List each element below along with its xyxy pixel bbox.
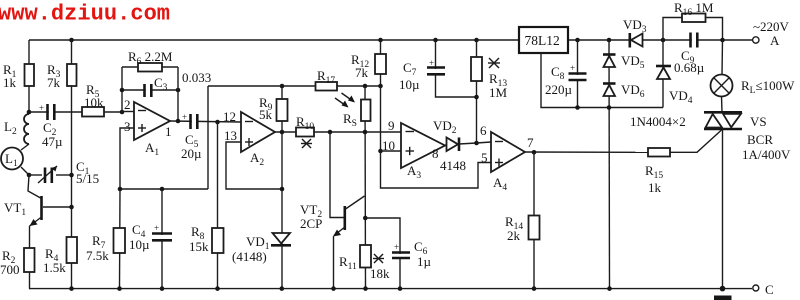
wire R17 line xyxy=(208,85,381,87)
wire A3 output to VD2 xyxy=(445,145,447,146)
resistor R7 xyxy=(114,228,126,253)
node R12 top rail xyxy=(378,38,383,43)
svg-text:~220V: ~220V xyxy=(753,19,790,34)
svg-text:15k: 15k xyxy=(189,239,209,254)
svg-text:1: 1 xyxy=(165,124,172,139)
node bias/R7/A1 pin3 xyxy=(118,187,123,192)
diode VD1 xyxy=(271,233,291,245)
wire top rail xyxy=(29,39,519,41)
svg-text:10: 10 xyxy=(382,138,395,153)
svg-text:2: 2 xyxy=(124,97,131,112)
node VT2 emitter ground xyxy=(331,286,336,291)
svg-text:VD5: VD5 xyxy=(621,53,645,71)
wire R9/VD1 column xyxy=(281,86,283,289)
node C5 / R8 column / A2 pin12 xyxy=(215,120,220,125)
svg-text:10k: 10k xyxy=(84,95,104,110)
inductor L1 xyxy=(1,148,23,170)
wire A3 pin10 lead xyxy=(381,150,402,152)
wire C3 branch xyxy=(122,89,178,91)
node RS bottom / pin9 wire xyxy=(363,130,368,135)
wire R8 column xyxy=(217,122,219,289)
node R7 ground xyxy=(117,286,122,291)
resistor R9 xyxy=(277,99,288,121)
svg-text:RL≤100W: RL≤100W xyxy=(741,78,795,96)
resistor R8 xyxy=(212,228,224,253)
op-amp A1 xyxy=(134,102,170,140)
svg-text:20µ: 20µ xyxy=(181,146,202,161)
node C9 right / lamp xyxy=(720,38,725,43)
wire VD5/VD6 column xyxy=(608,40,611,289)
node C8 top rail xyxy=(575,38,580,43)
node C8 / ground wire xyxy=(575,105,580,110)
wire C7 column xyxy=(436,40,477,97)
wire A1 pin2 lead xyxy=(122,111,134,113)
svg-text:+: + xyxy=(570,63,575,73)
svg-text:VT1: VT1 xyxy=(4,200,26,218)
diode VD2 xyxy=(447,138,460,152)
capacitor C8 xyxy=(569,63,587,80)
wire VD4 branch xyxy=(662,40,664,108)
wire R12 column xyxy=(380,40,382,151)
capacitor C6 xyxy=(392,242,410,258)
svg-text:13: 13 xyxy=(224,128,237,143)
svg-text:C8: C8 xyxy=(551,64,565,82)
node RS top xyxy=(363,84,368,89)
svg-text:7: 7 xyxy=(527,135,534,150)
node top rail / R3 xyxy=(69,38,74,43)
node C4 ground xyxy=(160,286,165,291)
mark ref R10 xyxy=(301,139,312,148)
capacitor C9 xyxy=(691,33,698,48)
resistor R12 xyxy=(375,54,386,74)
diode VD4 xyxy=(656,66,671,79)
photoresistor RS xyxy=(361,100,371,122)
mark ref R11 xyxy=(373,254,384,263)
wire A1 pin3 lead xyxy=(120,128,134,189)
wire R14 column xyxy=(533,152,535,288)
svg-text:1A/400V: 1A/400V xyxy=(742,147,791,162)
diode VD6 xyxy=(603,84,616,97)
wire 0.033 column xyxy=(207,86,209,189)
svg-text:18k: 18k xyxy=(370,266,390,281)
svg-text:8: 8 xyxy=(432,146,439,161)
wire A1 output xyxy=(170,121,241,122)
svg-text:+: + xyxy=(394,242,399,252)
wire bottom rail xyxy=(29,288,752,290)
svg-text:L2: L2 xyxy=(4,119,17,137)
svg-text:700: 700 xyxy=(0,262,20,277)
resistor R17 xyxy=(316,82,338,91)
svg-text:A4: A4 xyxy=(493,175,507,193)
svg-text:9: 9 xyxy=(388,118,395,133)
wire top rail right of 78L12 xyxy=(568,39,752,41)
wire L1 to node xyxy=(21,167,29,175)
op-amp A4 xyxy=(491,132,525,172)
op-amp A2 xyxy=(241,112,275,152)
wire R13 column xyxy=(476,40,478,143)
wire A4 output xyxy=(525,151,648,153)
capacitor C1 (variable 5/15) xyxy=(29,166,72,183)
svg-text:VD3: VD3 xyxy=(623,17,647,35)
svg-text:C: C xyxy=(765,282,774,297)
svg-text:1.5k: 1.5k xyxy=(43,260,66,275)
capacitor C7 xyxy=(427,58,445,74)
wire C2/R5 input wire xyxy=(29,111,122,113)
terminal A xyxy=(753,37,759,43)
wire A2 pin13 lead xyxy=(226,142,282,189)
svg-text:1k: 1k xyxy=(3,75,17,90)
node R14 ground xyxy=(532,286,537,291)
node bias/C4 xyxy=(160,187,165,192)
ground symbol xyxy=(714,296,732,300)
svg-text:C7: C7 xyxy=(403,60,417,78)
node R8 ground xyxy=(215,286,220,291)
resistor R16 xyxy=(682,14,706,23)
node VT1 base / R4 xyxy=(69,205,74,210)
node triac ground xyxy=(720,286,726,292)
svg-text:1M: 1M xyxy=(489,85,508,100)
mark ref R13 xyxy=(488,58,500,68)
diode VD5 xyxy=(603,55,616,68)
svg-text:+: + xyxy=(182,112,187,122)
node R12 bottom / R17 line xyxy=(378,84,383,89)
node R1/C2/L2 xyxy=(27,110,32,115)
wire A4 pin5 link to pin10 xyxy=(381,151,492,188)
svg-text:R15: R15 xyxy=(645,163,663,181)
diode VD3 xyxy=(630,33,643,48)
wire R7 column xyxy=(119,189,122,289)
svg-text:7.5k: 7.5k xyxy=(86,248,109,263)
wire A1 feedback left vertical xyxy=(121,67,123,112)
svg-text:5/15: 5/15 xyxy=(76,171,99,186)
svg-text:3: 3 xyxy=(124,119,131,134)
resistor R1 xyxy=(25,64,35,86)
wire VD2 to A4 pin6 xyxy=(459,142,491,144)
node C7 top rail xyxy=(433,38,438,43)
wire C6 branch xyxy=(365,218,400,289)
svg-text:RS: RS xyxy=(343,111,357,129)
IC 78L12 xyxy=(519,27,568,53)
svg-text:0.033: 0.033 xyxy=(182,70,211,85)
node R10 right / VT2 base column xyxy=(328,130,333,135)
wire R4 column xyxy=(71,207,73,289)
transistor VT1 xyxy=(28,175,72,248)
svg-text:5k: 5k xyxy=(259,107,273,122)
svg-text:+: + xyxy=(429,58,434,68)
node C3 left xyxy=(120,88,125,93)
wire A2 output xyxy=(275,131,401,133)
svg-text:1µ: 1µ xyxy=(417,254,432,269)
wire 78L12 ground pin xyxy=(541,53,663,108)
node L1/C1/VT1 xyxy=(27,173,32,178)
svg-text:VD2: VD2 xyxy=(433,118,457,136)
wire R3 column xyxy=(71,40,73,207)
svg-text:A: A xyxy=(770,33,780,48)
svg-text:7k: 7k xyxy=(47,75,61,90)
resistor R14 xyxy=(529,216,540,240)
svg-text:220µ: 220µ xyxy=(545,82,573,97)
svg-text:2CP: 2CP xyxy=(300,216,322,231)
node A3 pin10 / A4 pin5 link xyxy=(378,149,383,154)
node pin13/VD1 xyxy=(280,187,285,192)
terminal C xyxy=(753,285,759,291)
svg-text:VD6: VD6 xyxy=(621,82,645,100)
resistor R4 xyxy=(67,237,78,263)
wire left rail with R1 xyxy=(28,40,30,114)
svg-text:BCR: BCR xyxy=(747,132,773,147)
svg-text:A3: A3 xyxy=(407,163,421,181)
resistor R5 xyxy=(82,107,104,117)
wire R15 to triac gate xyxy=(670,130,722,152)
node R13 / C7 xyxy=(474,95,479,100)
capacitor C5 xyxy=(182,112,197,129)
svg-text:+: + xyxy=(39,103,44,113)
node VD6 / ground wire xyxy=(607,105,612,110)
wire A1 feedback top (R6) xyxy=(122,66,178,68)
resistor R11 xyxy=(360,245,371,268)
svg-text:4148: 4148 xyxy=(440,158,466,173)
resistor R2 xyxy=(24,248,35,272)
svg-text:78L12: 78L12 xyxy=(525,33,560,48)
node A1 output feedback xyxy=(176,119,181,124)
svg-text:10µ: 10µ xyxy=(129,237,150,252)
svg-text:47µ: 47µ xyxy=(42,134,63,149)
capacitor C2 xyxy=(39,103,54,120)
node R13 top rail xyxy=(474,38,479,43)
svg-text:+: + xyxy=(154,223,159,233)
resistor R3 xyxy=(67,64,77,86)
svg-text:10µ: 10µ xyxy=(399,77,420,92)
svg-text:VD4: VD4 xyxy=(669,88,693,106)
node VD3/VD4/R16 xyxy=(661,38,666,43)
node C3 right xyxy=(176,88,181,93)
svg-text:A2: A2 xyxy=(250,150,264,168)
light arrows at RS xyxy=(335,93,355,108)
capacitor C4 xyxy=(152,223,172,240)
svg-text:1N4004×2: 1N4004×2 xyxy=(630,114,686,129)
wire bias line y=189 xyxy=(120,188,208,190)
resistor R10 xyxy=(296,128,314,137)
wire VT2 base column xyxy=(330,132,344,218)
node R5/A1 pin2/feedback xyxy=(120,110,125,115)
wire R2 to ground rail xyxy=(28,272,31,289)
node C1 right / R3 column xyxy=(69,173,74,178)
svg-text:A1: A1 xyxy=(145,140,159,158)
svg-text:2k: 2k xyxy=(507,228,521,243)
node R9 top xyxy=(280,84,285,89)
svg-text:(4148): (4148) xyxy=(232,249,267,264)
node C6 ground xyxy=(398,286,403,291)
svg-text:R11: R11 xyxy=(339,254,357,272)
svg-text:www.dziuu.com: www.dziuu.com xyxy=(0,2,170,27)
node VD5 column top rail xyxy=(607,38,612,43)
inductor L2 xyxy=(24,114,29,144)
node VT2 collector / R11 top xyxy=(363,216,368,221)
svg-text:7k: 7k xyxy=(355,65,369,80)
node VD5 column ground xyxy=(607,286,612,291)
op-amp A3 xyxy=(401,123,445,168)
svg-text:6: 6 xyxy=(480,123,487,138)
transistor VT2 xyxy=(333,196,365,289)
svg-text:12: 12 xyxy=(223,109,236,124)
wire A1 feedback right vertical xyxy=(177,67,179,121)
wire L2 to L1 xyxy=(21,144,29,150)
lamp RL xyxy=(711,40,733,97)
wire C4 column xyxy=(161,189,163,289)
wire R16 loop xyxy=(663,18,723,41)
svg-text:VS: VS xyxy=(750,114,767,129)
wire C8 column xyxy=(577,40,579,108)
node R11 ground xyxy=(363,286,368,291)
resistor R15 xyxy=(648,148,670,157)
node R4 ground xyxy=(69,286,74,291)
resistor R6 xyxy=(138,63,162,72)
node A4 out / R14 xyxy=(532,150,537,155)
triac VS xyxy=(704,97,742,289)
capacitor C3 xyxy=(145,84,152,97)
svg-text:1k: 1k xyxy=(648,180,662,195)
node VD1 ground xyxy=(280,286,285,291)
node VD2 / R13 column xyxy=(474,141,479,146)
svg-text:5: 5 xyxy=(481,150,488,165)
node A2 out / R9 xyxy=(280,130,285,135)
resistor R13 xyxy=(471,57,482,81)
svg-text:0.68µ: 0.68µ xyxy=(674,60,705,75)
wire RS/R11 column xyxy=(364,86,367,289)
